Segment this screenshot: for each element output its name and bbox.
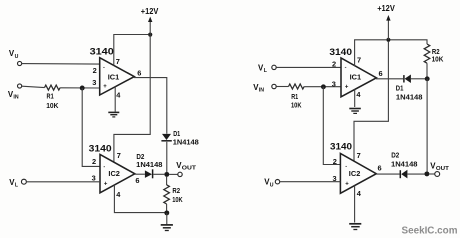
wire VU to IC1 pin 2 <box>22 63 100 66</box>
svg-text:2: 2 <box>92 157 96 166</box>
svg-text:3: 3 <box>92 174 96 183</box>
wire IC1 pin 4 <box>114 86 116 111</box>
svg-text:-: - <box>345 164 347 170</box>
diode D1 right <box>396 75 423 102</box>
ground IC1 right <box>349 109 361 114</box>
svg-text:D2: D2 <box>391 151 399 160</box>
node VU terminal <box>9 49 22 65</box>
wire junction down to IC2 pin 2 <box>82 88 100 166</box>
svg-text:7: 7 <box>117 151 121 160</box>
svg-text:1N4148: 1N4148 <box>391 159 418 168</box>
wire IC2 pin 4 to ground node <box>114 185 164 213</box>
node VOUT terminal right <box>430 161 450 176</box>
svg-text:U: U <box>270 182 274 188</box>
svg-text:IC1: IC1 <box>350 72 362 81</box>
wire VL to IC1 pin 2 right <box>276 66 341 68</box>
svg-text:R2: R2 <box>172 186 180 195</box>
svg-text:10K: 10K <box>291 101 302 110</box>
node VOUT junction <box>164 172 169 177</box>
diode D2 right <box>391 151 418 179</box>
svg-text:+: + <box>103 84 107 90</box>
wire IC1 pin 6 output <box>134 78 167 134</box>
svg-text:3: 3 <box>92 78 96 87</box>
power +12V <box>141 7 159 35</box>
svg-text:3140: 3140 <box>89 143 112 153</box>
op-amp IC1 right <box>341 58 376 97</box>
node ground junction <box>164 210 169 215</box>
svg-text:U: U <box>15 54 19 60</box>
wire R1 to IC1 pin 3 <box>60 87 100 89</box>
wire +12V rail down to IC2 pin 7 <box>114 35 150 162</box>
wire +12V rail down to IC2 pin 7 right <box>354 42 388 161</box>
node VIN terminal right <box>253 83 276 94</box>
resistor R2 right <box>424 44 444 64</box>
wire IC1 pin 4 right <box>354 89 356 107</box>
svg-text:OUT: OUT <box>436 166 450 172</box>
svg-text:-: - <box>103 164 105 170</box>
diode D2 <box>136 152 162 178</box>
node VL terminal <box>9 178 26 189</box>
svg-text:3140: 3140 <box>90 46 114 56</box>
node VU terminal right <box>264 178 279 189</box>
wire +12V to R2 right <box>391 40 428 44</box>
wire IC1 pin 7 to +12V rail <box>114 35 148 66</box>
node +12V junction right <box>386 38 390 42</box>
svg-text:7: 7 <box>357 55 361 64</box>
svg-text:+: + <box>345 181 349 187</box>
wire R1 to IC1 pin 3 right <box>304 86 341 88</box>
ground IC2 right <box>349 224 361 230</box>
svg-text:10K: 10K <box>46 101 59 110</box>
svg-text:R1: R1 <box>47 91 54 100</box>
wire R2 down to D1 node right <box>426 63 428 76</box>
wire junction down to VOUT right <box>426 79 428 172</box>
op-amp IC2 <box>100 154 135 192</box>
svg-text:IC2: IC2 <box>349 169 361 178</box>
node junction R1 / IC2 feed <box>80 86 85 91</box>
wire D2 to VOUT node right <box>407 173 424 175</box>
wire IC1 pin 7 to +12V right <box>355 40 387 67</box>
node +12V junction <box>148 33 152 37</box>
svg-text:1N4148: 1N4148 <box>173 137 199 146</box>
svg-text:2: 2 <box>332 60 336 69</box>
svg-text:10K: 10K <box>432 55 444 64</box>
wire VU to IC2 pin 3 right <box>280 181 341 183</box>
wire junction down to IC2 pin 2 right <box>323 87 340 165</box>
svg-text:6: 6 <box>378 163 382 172</box>
node VL terminal right <box>258 64 276 75</box>
wire D1 to VOUT node <box>166 142 168 172</box>
svg-text:+: + <box>104 181 108 187</box>
power +12V right <box>377 4 395 40</box>
svg-text:OUT: OUT <box>182 166 197 172</box>
node VIN terminal <box>8 84 22 101</box>
node D1/R2 junction right <box>425 76 430 81</box>
diode D1 <box>161 129 198 146</box>
wire R2 to ground node <box>166 204 168 211</box>
svg-text:IN: IN <box>259 88 264 94</box>
wire IC2 pin 4 right <box>354 186 356 223</box>
svg-text:3: 3 <box>332 79 336 88</box>
resistor R1 <box>45 85 61 110</box>
ground IC1 <box>108 112 119 117</box>
svg-text:IN: IN <box>13 94 18 100</box>
op-amp IC1 <box>100 58 135 95</box>
svg-text:10K: 10K <box>172 195 183 204</box>
svg-text:7: 7 <box>116 57 120 66</box>
svg-text:6: 6 <box>135 176 139 185</box>
svg-text:6: 6 <box>379 69 383 78</box>
wire IC2 pin 6 to D2 right <box>376 173 399 175</box>
svg-text:3140: 3140 <box>329 47 352 57</box>
svg-text:2: 2 <box>333 157 337 166</box>
wire VIN to R1 <box>22 86 45 87</box>
wire IC2 pin 6 to D2 <box>134 173 145 175</box>
svg-text:D1: D1 <box>396 84 404 93</box>
resistor R2 <box>164 185 183 204</box>
wire VL to IC2 pin 3 <box>26 181 100 183</box>
op-amp IC2 right <box>340 153 376 193</box>
node junction R1 right <box>321 84 326 89</box>
svg-text:7: 7 <box>357 151 361 160</box>
svg-text:+: + <box>345 84 349 90</box>
svg-text:IC2: IC2 <box>108 169 120 178</box>
svg-text:-: - <box>103 64 105 70</box>
wire D1 to rail node right <box>411 78 425 80</box>
svg-text:6: 6 <box>137 69 141 78</box>
svg-text:-: - <box>345 65 347 71</box>
wire to VOUT terminal right <box>429 173 435 175</box>
svg-text:+12V: +12V <box>377 4 395 13</box>
svg-text:3140: 3140 <box>330 141 352 151</box>
wire VIN to R1 right <box>276 86 288 88</box>
wire to VOUT terminal <box>169 173 178 175</box>
svg-text:1N4148: 1N4148 <box>136 160 162 169</box>
wire IC1 pin 6 to D1 right <box>376 78 403 80</box>
ground main <box>161 225 173 231</box>
svg-text:1N4148: 1N4148 <box>396 92 423 101</box>
svg-text:SeekIC.com: SeekIC.com <box>402 226 458 237</box>
svg-text:2: 2 <box>93 66 97 75</box>
wire D2 to VOUT node <box>153 173 164 175</box>
node VOUT junction right <box>424 171 429 176</box>
node VOUT terminal <box>176 161 197 176</box>
wire VOUT node down to R2 <box>166 177 168 185</box>
svg-text:+12V: +12V <box>141 7 159 16</box>
svg-text:IC1: IC1 <box>108 73 120 82</box>
resistor R1 right <box>289 84 305 110</box>
wire ground node down <box>166 213 168 224</box>
